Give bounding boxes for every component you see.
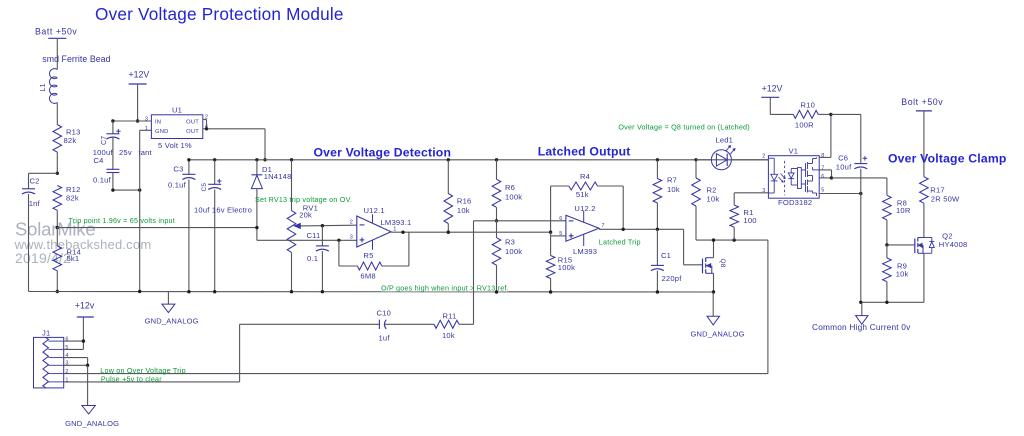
wire (56, 38, 58, 69)
svg-text:7: 7 (821, 166, 824, 172)
wire (656, 203, 658, 229)
svg-text:100: 100 (743, 216, 756, 225)
wire (113, 173, 140, 191)
svg-text:R17: R17 (930, 186, 945, 195)
svg-text:U12.2: U12.2 (574, 204, 595, 213)
text Latched Trip (599, 237, 641, 246)
wire R1 to V1 pin3 (734, 193, 768, 205)
wire (860, 169, 862, 302)
svg-text:8: 8 (821, 153, 824, 159)
junction (213, 290, 216, 293)
junction (549, 290, 552, 293)
junction (712, 238, 736, 241)
power symbol +12V right (761, 84, 782, 98)
svg-text:1: 1 (145, 126, 148, 132)
junction (337, 239, 340, 242)
svg-text:Common High Current 0v: Common High Current 0v (812, 322, 911, 332)
wire (656, 229, 658, 265)
transistor Q2 HY4008 (915, 231, 968, 253)
wire (291, 160, 293, 211)
wire (551, 186, 624, 232)
svg-text:2019/4/2: 2019/4/2 (15, 250, 71, 266)
junction (495, 219, 498, 222)
svg-text:82k: 82k (64, 136, 77, 145)
wire (496, 265, 498, 292)
capacitor C4 0.1uf (93, 156, 119, 185)
heading Over Voltage Clamp (888, 152, 1007, 166)
junction (830, 176, 833, 179)
svg-text:0.1: 0.1 (307, 254, 318, 263)
svg-text:Over Voltage Detection: Over Voltage Detection (314, 146, 452, 160)
svg-text:C1: C1 (661, 251, 671, 260)
junction (136, 119, 139, 122)
resistor R14 5k1 (53, 246, 81, 271)
svg-text:+12V: +12V (129, 70, 150, 80)
svg-text:smd Ferrite Bead: smd Ferrite Bead (42, 54, 110, 64)
wire (214, 190, 216, 292)
svg-text:Over Voltage Protection Module: Over Voltage Protection Module (95, 4, 344, 24)
wire (886, 178, 888, 245)
svg-text:5: 5 (821, 187, 824, 193)
wire (656, 160, 658, 179)
svg-text:10k: 10k (707, 195, 720, 204)
resistor R15 100k (546, 255, 575, 278)
wire (188, 180, 190, 292)
wire (496, 221, 498, 238)
potentiometer RV1 20k (287, 204, 318, 253)
junction (205, 127, 267, 161)
svg-text:IN: IN (155, 120, 161, 126)
wire (321, 251, 323, 292)
resistor R11 10k (434, 311, 459, 340)
resistor R2 10k (692, 178, 720, 206)
wire J1 pin1 reset (64, 381, 240, 383)
svg-text:1uf: 1uf (379, 334, 391, 343)
wire (818, 113, 831, 115)
svg-text:C3: C3 (173, 165, 183, 174)
svg-text:Over Voltage Clamp: Over Voltage Clamp (888, 152, 1007, 166)
resistor R10 100R (793, 101, 818, 130)
+5V rail wire (189, 159, 769, 161)
wire (188, 160, 190, 175)
svg-text:L1: L1 (40, 83, 47, 91)
svg-text:100k: 100k (505, 247, 522, 256)
svg-text:GND_ANALOG: GND_ANALOG (65, 419, 119, 428)
wire V1 pin5 (819, 193, 861, 195)
wire (923, 253, 925, 302)
svg-text:100k: 100k (558, 263, 575, 272)
resistor R12 82k (53, 185, 81, 211)
wire U1 GND to bus (140, 130, 152, 291)
svg-text:R10: R10 (801, 101, 816, 110)
optocoupler V1 FOD3182 (762, 146, 824, 207)
svg-text:20k: 20k (299, 211, 312, 220)
svg-text:2R 50W: 2R 50W (931, 195, 960, 204)
wire Q2 gate (887, 244, 915, 246)
text Over Voltage = Q8 turned on (618, 123, 749, 132)
inductor L1 smd Ferrite Bead (40, 54, 111, 103)
svg-text:0.1uf: 0.1uf (168, 180, 187, 189)
svg-text:C5: C5 (201, 183, 208, 192)
svg-text:Set RV13 trip voltage on OV.: Set RV13 trip voltage on OV. (255, 195, 352, 204)
svg-text:R3: R3 (505, 238, 515, 247)
svg-text:R7: R7 (667, 176, 677, 185)
junction (656, 228, 659, 231)
wire U12.1 output (391, 231, 551, 233)
junction (321, 290, 324, 293)
junction (138, 290, 141, 293)
GND_ANALOG bus wire (29, 291, 714, 294)
capacitor C2 1nf (22, 176, 41, 208)
wire (886, 245, 888, 302)
resistor R13 82k (53, 125, 81, 153)
heading Latched Output (538, 145, 631, 159)
junction (656, 158, 659, 161)
svg-text:5 Volt 1%: 5 Volt 1% (158, 141, 192, 150)
wire V1 pin8 (819, 114, 831, 157)
svg-text:R5: R5 (363, 251, 373, 260)
text Trip point (69, 216, 175, 225)
svg-text:R16: R16 (457, 197, 472, 206)
svg-text:51k: 51k (576, 190, 589, 199)
wire (496, 207, 498, 221)
junction (111, 188, 141, 191)
ground GND_ANALOG at J1 (65, 406, 119, 428)
wire common 0v bus (861, 301, 924, 303)
wire (256, 189, 258, 241)
svg-text:GND_ANALOG: GND_ANALOG (145, 317, 199, 326)
svg-text:+12V: +12V (762, 84, 783, 94)
text Set RV13 (255, 195, 352, 204)
text O/P goes high (381, 284, 509, 293)
wire (656, 271, 658, 292)
junction (859, 301, 889, 304)
junction (255, 158, 258, 161)
title Over Voltage Protection Module (95, 4, 344, 24)
capacitor C5 10uf 16v Electro (194, 179, 252, 215)
svg-text:tant: tant (138, 148, 152, 157)
svg-text:LM393: LM393 (573, 247, 597, 256)
svg-text:82k: 82k (66, 194, 79, 203)
svg-text:10k: 10k (457, 206, 470, 215)
svg-text:Batt +50v: Batt +50v (35, 27, 77, 37)
capacitor C7 100uf 25v tant (93, 129, 153, 157)
junction (549, 231, 552, 234)
svg-text:J1: J1 (42, 329, 50, 338)
diode D1 1N4148 (251, 165, 291, 189)
text Pulse +5v to clear (101, 375, 162, 384)
capacitor C10 1uf (377, 309, 392, 343)
svg-text:Latched Output: Latched Output (538, 145, 631, 159)
wire (923, 203, 925, 237)
svg-text:1nf: 1nf (29, 199, 41, 208)
wire (733, 227, 735, 240)
capacitor C1 220pf (651, 251, 682, 283)
svg-text:0.1uf: 0.1uf (93, 176, 112, 185)
wire (447, 160, 449, 194)
svg-text:R4: R4 (580, 172, 590, 181)
svg-text:GND_ANALOG: GND_ANALOG (691, 330, 745, 339)
wire (767, 240, 769, 374)
svg-text:R12: R12 (66, 185, 81, 194)
junction (447, 158, 450, 161)
capacitor C11 0.1 (307, 231, 329, 263)
wire (695, 160, 697, 178)
ground GND_ANALOG left (145, 292, 199, 326)
wire (321, 226, 323, 246)
svg-text:25v: 25v (119, 148, 132, 157)
ground GND_ANALOG right (691, 292, 745, 339)
wire (29, 173, 58, 189)
wire latch reference (474, 220, 566, 222)
heading Over Voltage Detection (314, 146, 452, 160)
svg-text:O/P goes high when input > RV1: O/P goes high when input > RV13 ref. (381, 284, 509, 293)
wire (57, 227, 257, 229)
svg-text:C2: C2 (30, 176, 40, 185)
wire (28, 194, 30, 292)
svg-text:GND: GND (155, 129, 168, 135)
watermark SolarMike (14, 219, 152, 266)
wire (87, 365, 89, 405)
resistor R9 10k (883, 258, 909, 282)
op-amp U12.1 LM393.1 (350, 206, 412, 250)
wire (291, 252, 293, 291)
junction (290, 158, 293, 161)
wire (113, 120, 151, 122)
svg-text:6: 6 (559, 216, 562, 222)
svg-text:C10: C10 (377, 309, 392, 318)
svg-text:U12.1: U12.1 (364, 206, 385, 215)
svg-text:10uf: 10uf (836, 162, 852, 171)
connector J1 (34, 329, 69, 388)
svg-text:C11: C11 (307, 231, 321, 240)
wire J1 pin2 Low on trip (64, 373, 768, 375)
svg-text:6: 6 (821, 174, 824, 180)
wire (256, 160, 258, 175)
transistor Q8 (703, 258, 726, 274)
junction (111, 119, 114, 122)
wire comparator + input (257, 239, 357, 241)
wire (831, 114, 861, 163)
svg-text:R2: R2 (707, 186, 717, 195)
wire Q8 drain node (696, 239, 768, 241)
svg-text:Led1: Led1 (715, 136, 733, 145)
wire reset vertical (473, 221, 475, 324)
svg-text:1N4148: 1N4148 (264, 172, 292, 181)
svg-text:10R: 10R (896, 206, 911, 215)
wire (56, 103, 58, 125)
wire (137, 84, 139, 121)
svg-text:10k: 10k (667, 185, 680, 194)
svg-text:Over Voltage = Q8 turned on (L: Over Voltage = Q8 turned on (Latched) (618, 123, 749, 132)
svg-text:Latched Trip: Latched Trip (599, 237, 641, 246)
svg-text:3: 3 (145, 116, 148, 122)
wire (214, 160, 216, 185)
capacitor C6 10uf (836, 154, 868, 172)
wire (64, 317, 84, 349)
capacitor C3 0.1uf (168, 165, 195, 190)
junction (495, 290, 498, 293)
ground Common High Current 0v (812, 302, 911, 332)
wire (770, 97, 793, 114)
resistor R7 10k (653, 176, 680, 204)
wire (695, 206, 697, 240)
svg-text:10k: 10k (442, 331, 455, 340)
junction (829, 113, 832, 116)
wire Q8 gate (684, 229, 703, 264)
resistor R8 10R (883, 195, 911, 220)
svg-text:LM393.1: LM393.1 (381, 218, 412, 227)
svg-text:2: 2 (762, 153, 765, 159)
svg-text:R11: R11 (443, 311, 457, 320)
wire U1 outputs (203, 120, 265, 160)
junction (495, 158, 498, 161)
junction (885, 243, 888, 246)
wire (550, 236, 552, 256)
node A (56, 172, 59, 175)
junction (321, 224, 324, 227)
wire (240, 323, 380, 325)
svg-text:220pf: 220pf (662, 274, 683, 283)
svg-text:+12v: +12v (75, 301, 95, 311)
wire RV1 wiper to comparator - input (300, 224, 356, 227)
wire (496, 160, 498, 180)
junction (82, 339, 85, 342)
svg-text:C6: C6 (838, 154, 848, 163)
junction (694, 158, 697, 161)
svg-text:7: 7 (602, 223, 605, 229)
wire (551, 232, 566, 236)
LED Led1 (696, 136, 768, 170)
resistor R6 100k (492, 179, 522, 207)
junction (187, 158, 216, 161)
svg-text:Trip point 1.96v = 65 volts in: Trip point 1.96v = 65 volts input (69, 216, 175, 225)
svg-text:Q8: Q8 (719, 259, 726, 268)
svg-text:10k: 10k (896, 270, 909, 279)
junction (712, 290, 715, 293)
resistor R3 100k (492, 238, 522, 266)
wire (447, 224, 449, 233)
wire (112, 138, 114, 170)
svg-text:U1: U1 (172, 106, 182, 115)
wire (56, 210, 58, 227)
node B (56, 226, 59, 229)
junction (401, 231, 404, 234)
resistor R16 10k (444, 194, 471, 224)
wire (923, 111, 925, 177)
resistor R17 2R 50W (920, 177, 960, 204)
svg-text:3: 3 (762, 188, 765, 194)
svg-text:5: 5 (559, 231, 562, 237)
wire (56, 228, 58, 292)
wire (550, 279, 552, 293)
svg-text:OUT: OUT (186, 129, 199, 135)
svg-text:100k: 100k (505, 193, 522, 202)
svg-text:OUT: OUT (186, 120, 199, 126)
svg-text:C7: C7 (101, 136, 108, 145)
junction (290, 290, 293, 293)
svg-text:6M8: 6M8 (360, 272, 375, 281)
svg-text:FOD3182: FOD3182 (778, 198, 812, 207)
svg-text:2: 2 (350, 219, 353, 225)
regulator U1 5 Volt 1% (145, 106, 208, 150)
junction (56, 290, 59, 293)
junction (86, 364, 89, 367)
resistor R4 51k (569, 172, 598, 199)
power symbol Bolt +50v (901, 97, 943, 111)
svg-text:100R: 100R (795, 121, 814, 130)
wire (56, 152, 58, 173)
junction (859, 192, 862, 195)
svg-text:3: 3 (350, 235, 353, 241)
svg-text:HY4008: HY4008 (939, 240, 968, 249)
svg-text:5k1: 5k1 (67, 254, 80, 263)
resistor R1 100 (730, 205, 757, 227)
junction (187, 290, 190, 293)
wire (832, 177, 887, 179)
wire (713, 240, 715, 292)
op-amp U12.2 LM393 (559, 204, 605, 256)
power symbol +12v at J1 (75, 301, 95, 318)
junction (622, 228, 625, 231)
junction (656, 290, 659, 293)
svg-text:10uf 16v Electro: 10uf 16v Electro (194, 205, 252, 214)
svg-text:V1: V1 (789, 146, 799, 155)
wire V1 pin7 pin6 (819, 170, 831, 178)
text Low on Over Voltage Trip (100, 366, 186, 375)
power symbol +12V (129, 70, 150, 84)
svg-text:C4: C4 (94, 156, 104, 165)
svg-text:Bolt +50v: Bolt +50v (901, 97, 943, 107)
junction node B to D1 (255, 226, 258, 229)
wire (64, 358, 88, 366)
wire (339, 232, 409, 266)
resistor R5 6M8 feedback (357, 251, 381, 281)
wire U12.2 output (599, 228, 684, 230)
svg-text:Pulse +5v to clear: Pulse +5v to clear (101, 375, 162, 384)
junction (447, 231, 450, 234)
power symbol Batt +50v (35, 27, 77, 39)
wire (239, 324, 241, 382)
wire (112, 121, 114, 134)
wire (385, 323, 474, 325)
svg-text:R6: R6 (505, 183, 515, 192)
